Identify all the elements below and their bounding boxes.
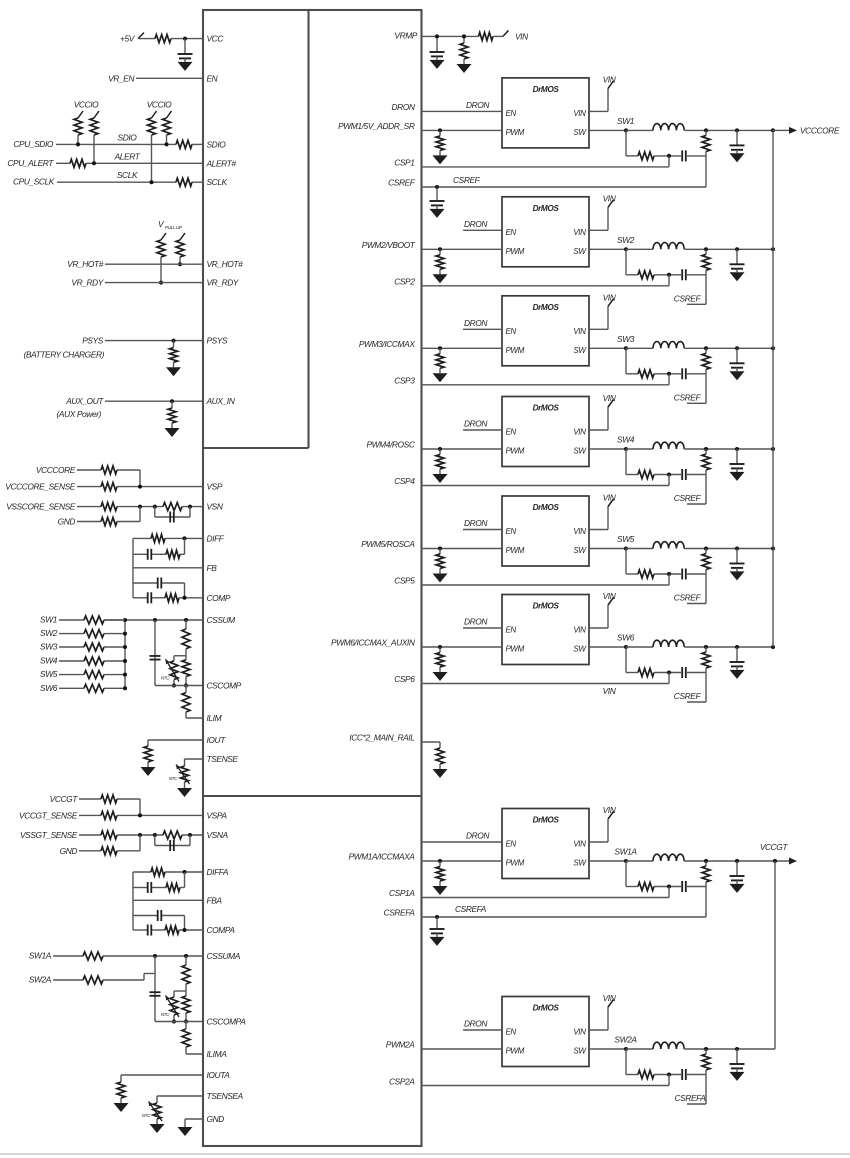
svg-text:SW2: SW2	[40, 628, 58, 638]
svg-text:DIFF: DIFF	[207, 533, 225, 543]
svg-text:VCC: VCC	[207, 34, 225, 44]
svg-text:VIN: VIN	[515, 31, 529, 41]
svg-text:SW1A: SW1A	[29, 951, 52, 961]
svg-text:SW3: SW3	[40, 642, 58, 652]
svg-text:PWM: PWM	[506, 447, 525, 456]
svg-text:ALERT#: ALERT#	[206, 158, 237, 168]
svg-text:VIN: VIN	[573, 527, 586, 536]
svg-text:VR_RDY: VR_RDY	[207, 278, 240, 288]
svg-text:SW4: SW4	[40, 656, 58, 666]
svg-text:SW: SW	[573, 128, 587, 137]
svg-text:DRON: DRON	[464, 518, 488, 528]
svg-text:DRON: DRON	[464, 617, 488, 627]
svg-text:+5V: +5V	[120, 34, 136, 44]
svg-text:AUX_IN: AUX_IN	[206, 396, 236, 406]
svg-text:VIN: VIN	[573, 1028, 586, 1037]
svg-text:CSREF: CSREF	[674, 691, 702, 701]
svg-text:DRON: DRON	[464, 219, 488, 229]
svg-text:PWM: PWM	[506, 546, 525, 555]
svg-text:PWM: PWM	[506, 645, 525, 654]
svg-text:CSP3: CSP3	[394, 375, 415, 385]
svg-text:VIN: VIN	[573, 109, 586, 118]
svg-text:SW1A: SW1A	[614, 847, 637, 857]
svg-text:PWM: PWM	[506, 1047, 525, 1056]
svg-text:CSP1: CSP1	[394, 158, 414, 168]
svg-text:VIN: VIN	[603, 686, 617, 696]
svg-text:ILIMA: ILIMA	[207, 1049, 228, 1059]
svg-text:VCCGT: VCCGT	[50, 794, 79, 804]
svg-text:SW2A: SW2A	[614, 1035, 637, 1045]
svg-text:SCLK: SCLK	[207, 177, 228, 187]
svg-text:PWM5/ROSCA: PWM5/ROSCA	[361, 539, 415, 549]
svg-text:VSSCORE_SENSE: VSSCORE_SENSE	[6, 502, 76, 512]
svg-text:CSREFA: CSREFA	[675, 1093, 707, 1103]
svg-text:PWM1/5V_ADDR_SR: PWM1/5V_ADDR_SR	[338, 121, 415, 131]
svg-text:(AUX Power): (AUX Power)	[57, 409, 102, 419]
svg-text:PWM: PWM	[506, 346, 525, 355]
svg-text:(BATTERY CHARGER): (BATTERY CHARGER)	[23, 350, 104, 360]
svg-text:CSP2: CSP2	[394, 276, 415, 286]
svg-text:DrMOS: DrMOS	[533, 204, 560, 213]
svg-text:VSP: VSP	[207, 482, 223, 492]
svg-text:IOUT: IOUT	[207, 735, 227, 745]
svg-text:SCLK: SCLK	[117, 170, 138, 180]
svg-text:VSNA: VSNA	[207, 830, 229, 840]
svg-text:VIN: VIN	[573, 626, 586, 635]
svg-text:AUX_OUT: AUX_OUT	[65, 396, 104, 406]
svg-text:VCCGT: VCCGT	[760, 842, 789, 852]
svg-text:SW6: SW6	[617, 633, 635, 643]
svg-text:VIN: VIN	[573, 327, 586, 336]
svg-text:PWM2A: PWM2A	[386, 1040, 416, 1050]
svg-text:PSYS: PSYS	[82, 336, 104, 346]
svg-text:SDIO: SDIO	[207, 139, 227, 149]
svg-text:VR_EN: VR_EN	[108, 73, 135, 83]
svg-text:CSREF: CSREF	[674, 392, 702, 402]
svg-text:CSCOMPA: CSCOMPA	[207, 1017, 247, 1027]
svg-text:VIN: VIN	[603, 993, 617, 1003]
svg-text:PSYS: PSYS	[207, 336, 229, 346]
svg-text:EN: EN	[207, 73, 219, 83]
svg-text:VSSGT_SENSE: VSSGT_SENSE	[20, 830, 78, 840]
svg-text:CSSUMA: CSSUMA	[207, 951, 241, 961]
svg-text:FBA: FBA	[207, 895, 223, 905]
svg-text:VIN: VIN	[603, 591, 617, 601]
svg-text:SW2A: SW2A	[29, 975, 52, 985]
svg-text:VR_RDY: VR_RDY	[71, 278, 104, 288]
svg-text:SW: SW	[573, 546, 587, 555]
svg-text:DRON: DRON	[464, 419, 488, 429]
svg-text:ICC*2_MAIN_RAIL: ICC*2_MAIN_RAIL	[349, 733, 415, 743]
svg-text:PWM: PWM	[506, 128, 525, 137]
svg-text:EN: EN	[506, 228, 517, 237]
svg-text:PWM4/ROSC: PWM4/ROSC	[366, 440, 415, 450]
svg-text:CSCOMP: CSCOMP	[207, 681, 242, 691]
svg-text:TSENSEA: TSENSEA	[207, 1091, 244, 1101]
svg-text:ILIM: ILIM	[207, 713, 222, 723]
svg-text:CSREFA: CSREFA	[455, 904, 487, 914]
svg-text:DRON: DRON	[391, 102, 415, 112]
svg-text:VR_HOT#: VR_HOT#	[67, 259, 104, 269]
svg-text:SW4: SW4	[617, 435, 635, 445]
svg-text:SW: SW	[573, 645, 587, 654]
svg-text:CSP6: CSP6	[394, 674, 415, 684]
svg-text:CSREF: CSREF	[674, 493, 702, 503]
svg-text:PWM2/VBOOT: PWM2/VBOOT	[362, 240, 416, 250]
svg-text:SW: SW	[573, 346, 587, 355]
svg-text:VIN: VIN	[603, 292, 617, 302]
svg-text:EN: EN	[506, 327, 517, 336]
svg-text:VIN: VIN	[573, 428, 586, 437]
svg-text:VCCGT_SENSE: VCCGT_SENSE	[19, 810, 78, 820]
svg-text:VCCCORE_SENSE: VCCCORE_SENSE	[5, 482, 76, 492]
svg-text:VCCCORE: VCCCORE	[36, 465, 76, 475]
svg-text:VR_HOT#: VR_HOT#	[207, 259, 244, 269]
svg-text:SW1: SW1	[40, 615, 57, 625]
svg-text:DrMOS: DrMOS	[533, 1004, 560, 1013]
svg-text:NTC: NTC	[161, 676, 170, 681]
svg-text:CSREFA: CSREFA	[384, 908, 416, 918]
svg-text:PWM: PWM	[506, 859, 525, 868]
svg-text:COMPA: COMPA	[207, 925, 236, 935]
svg-text:DIFFA: DIFFA	[207, 867, 229, 877]
svg-text:EN: EN	[506, 109, 517, 118]
svg-text:COMP: COMP	[207, 593, 231, 603]
svg-text:PWM: PWM	[506, 247, 525, 256]
svg-text:VRMP: VRMP	[394, 30, 417, 40]
svg-text:VSN: VSN	[207, 502, 224, 512]
svg-text:GND: GND	[207, 1114, 225, 1124]
svg-text:DrMOS: DrMOS	[533, 816, 560, 825]
svg-text:IOUTA: IOUTA	[207, 1070, 231, 1080]
svg-text:EN: EN	[506, 428, 517, 437]
svg-text:DRON: DRON	[464, 318, 488, 328]
svg-text:CSSUM: CSSUM	[207, 615, 236, 625]
svg-text:GND: GND	[58, 517, 76, 527]
svg-text:GND: GND	[60, 846, 78, 856]
svg-text:VCCIO: VCCIO	[74, 100, 99, 110]
svg-text:CSP4: CSP4	[394, 476, 415, 486]
svg-text:SW5: SW5	[617, 534, 635, 544]
svg-text:VIN: VIN	[603, 805, 617, 815]
svg-text:CPU_ALERT: CPU_ALERT	[7, 158, 54, 168]
svg-text:NTC: NTC	[169, 776, 178, 781]
svg-text:EN: EN	[506, 1028, 517, 1037]
svg-text:CSREF: CSREF	[388, 178, 416, 188]
svg-text:CSREF: CSREF	[674, 593, 702, 603]
svg-text:ALERT: ALERT	[114, 151, 141, 161]
svg-text:SW: SW	[573, 447, 587, 456]
svg-text:DrMOS: DrMOS	[533, 303, 560, 312]
svg-text:EN: EN	[506, 626, 517, 635]
svg-text:SDIO: SDIO	[118, 132, 138, 142]
svg-text:VIN: VIN	[603, 74, 617, 84]
svg-text:PWM1A/ICCMAXA: PWM1A/ICCMAXA	[349, 852, 416, 862]
svg-text:VCCIO: VCCIO	[147, 100, 172, 110]
svg-text:CSREF: CSREF	[453, 175, 481, 185]
svg-text:TSENSE: TSENSE	[207, 754, 239, 764]
svg-text:SW: SW	[573, 247, 587, 256]
svg-text:EN: EN	[506, 840, 517, 849]
svg-text:CSP1A: CSP1A	[389, 888, 415, 898]
svg-text:DrMOS: DrMOS	[533, 404, 560, 413]
svg-text:VCCCORE: VCCCORE	[800, 125, 840, 135]
svg-text:DrMOS: DrMOS	[533, 503, 560, 512]
svg-text:SW3: SW3	[617, 334, 635, 344]
svg-text:SW: SW	[573, 1047, 587, 1056]
svg-text:DRON: DRON	[466, 831, 490, 841]
svg-text:CSP5: CSP5	[394, 576, 415, 586]
svg-text:VIN: VIN	[603, 493, 617, 503]
svg-text:PWM6/ICCMAX_AUXIN: PWM6/ICCMAX_AUXIN	[331, 638, 416, 648]
svg-text:VIN: VIN	[603, 393, 617, 403]
svg-text:VIN: VIN	[573, 228, 586, 237]
svg-text:VSPA: VSPA	[207, 810, 228, 820]
svg-text:NTC: NTC	[161, 1012, 170, 1017]
svg-text:VIN: VIN	[573, 840, 586, 849]
svg-text:CPU_SDIO: CPU_SDIO	[13, 139, 54, 149]
svg-text:SW: SW	[573, 859, 587, 868]
svg-text:CSP2A: CSP2A	[389, 1077, 415, 1087]
svg-text:SW1: SW1	[617, 116, 634, 126]
svg-text:CPU_SCLK: CPU_SCLK	[13, 177, 55, 187]
svg-text:SW5: SW5	[40, 669, 58, 679]
svg-text:PULL-UP: PULL-UP	[165, 225, 183, 230]
svg-text:NTC: NTC	[142, 1113, 151, 1118]
svg-text:FB: FB	[207, 563, 218, 573]
svg-text:DrMOS: DrMOS	[533, 602, 560, 611]
svg-text:SW6: SW6	[40, 683, 58, 693]
svg-text:EN: EN	[506, 527, 517, 536]
svg-text:VIN: VIN	[603, 193, 617, 203]
svg-text:SW2: SW2	[617, 235, 635, 245]
svg-text:PWM3/ICCMAX: PWM3/ICCMAX	[359, 339, 415, 349]
svg-text:DrMOS: DrMOS	[533, 85, 560, 94]
svg-text:DRON: DRON	[464, 1019, 488, 1029]
svg-text:DRON: DRON	[466, 100, 490, 110]
svg-text:CSREF: CSREF	[674, 293, 702, 303]
